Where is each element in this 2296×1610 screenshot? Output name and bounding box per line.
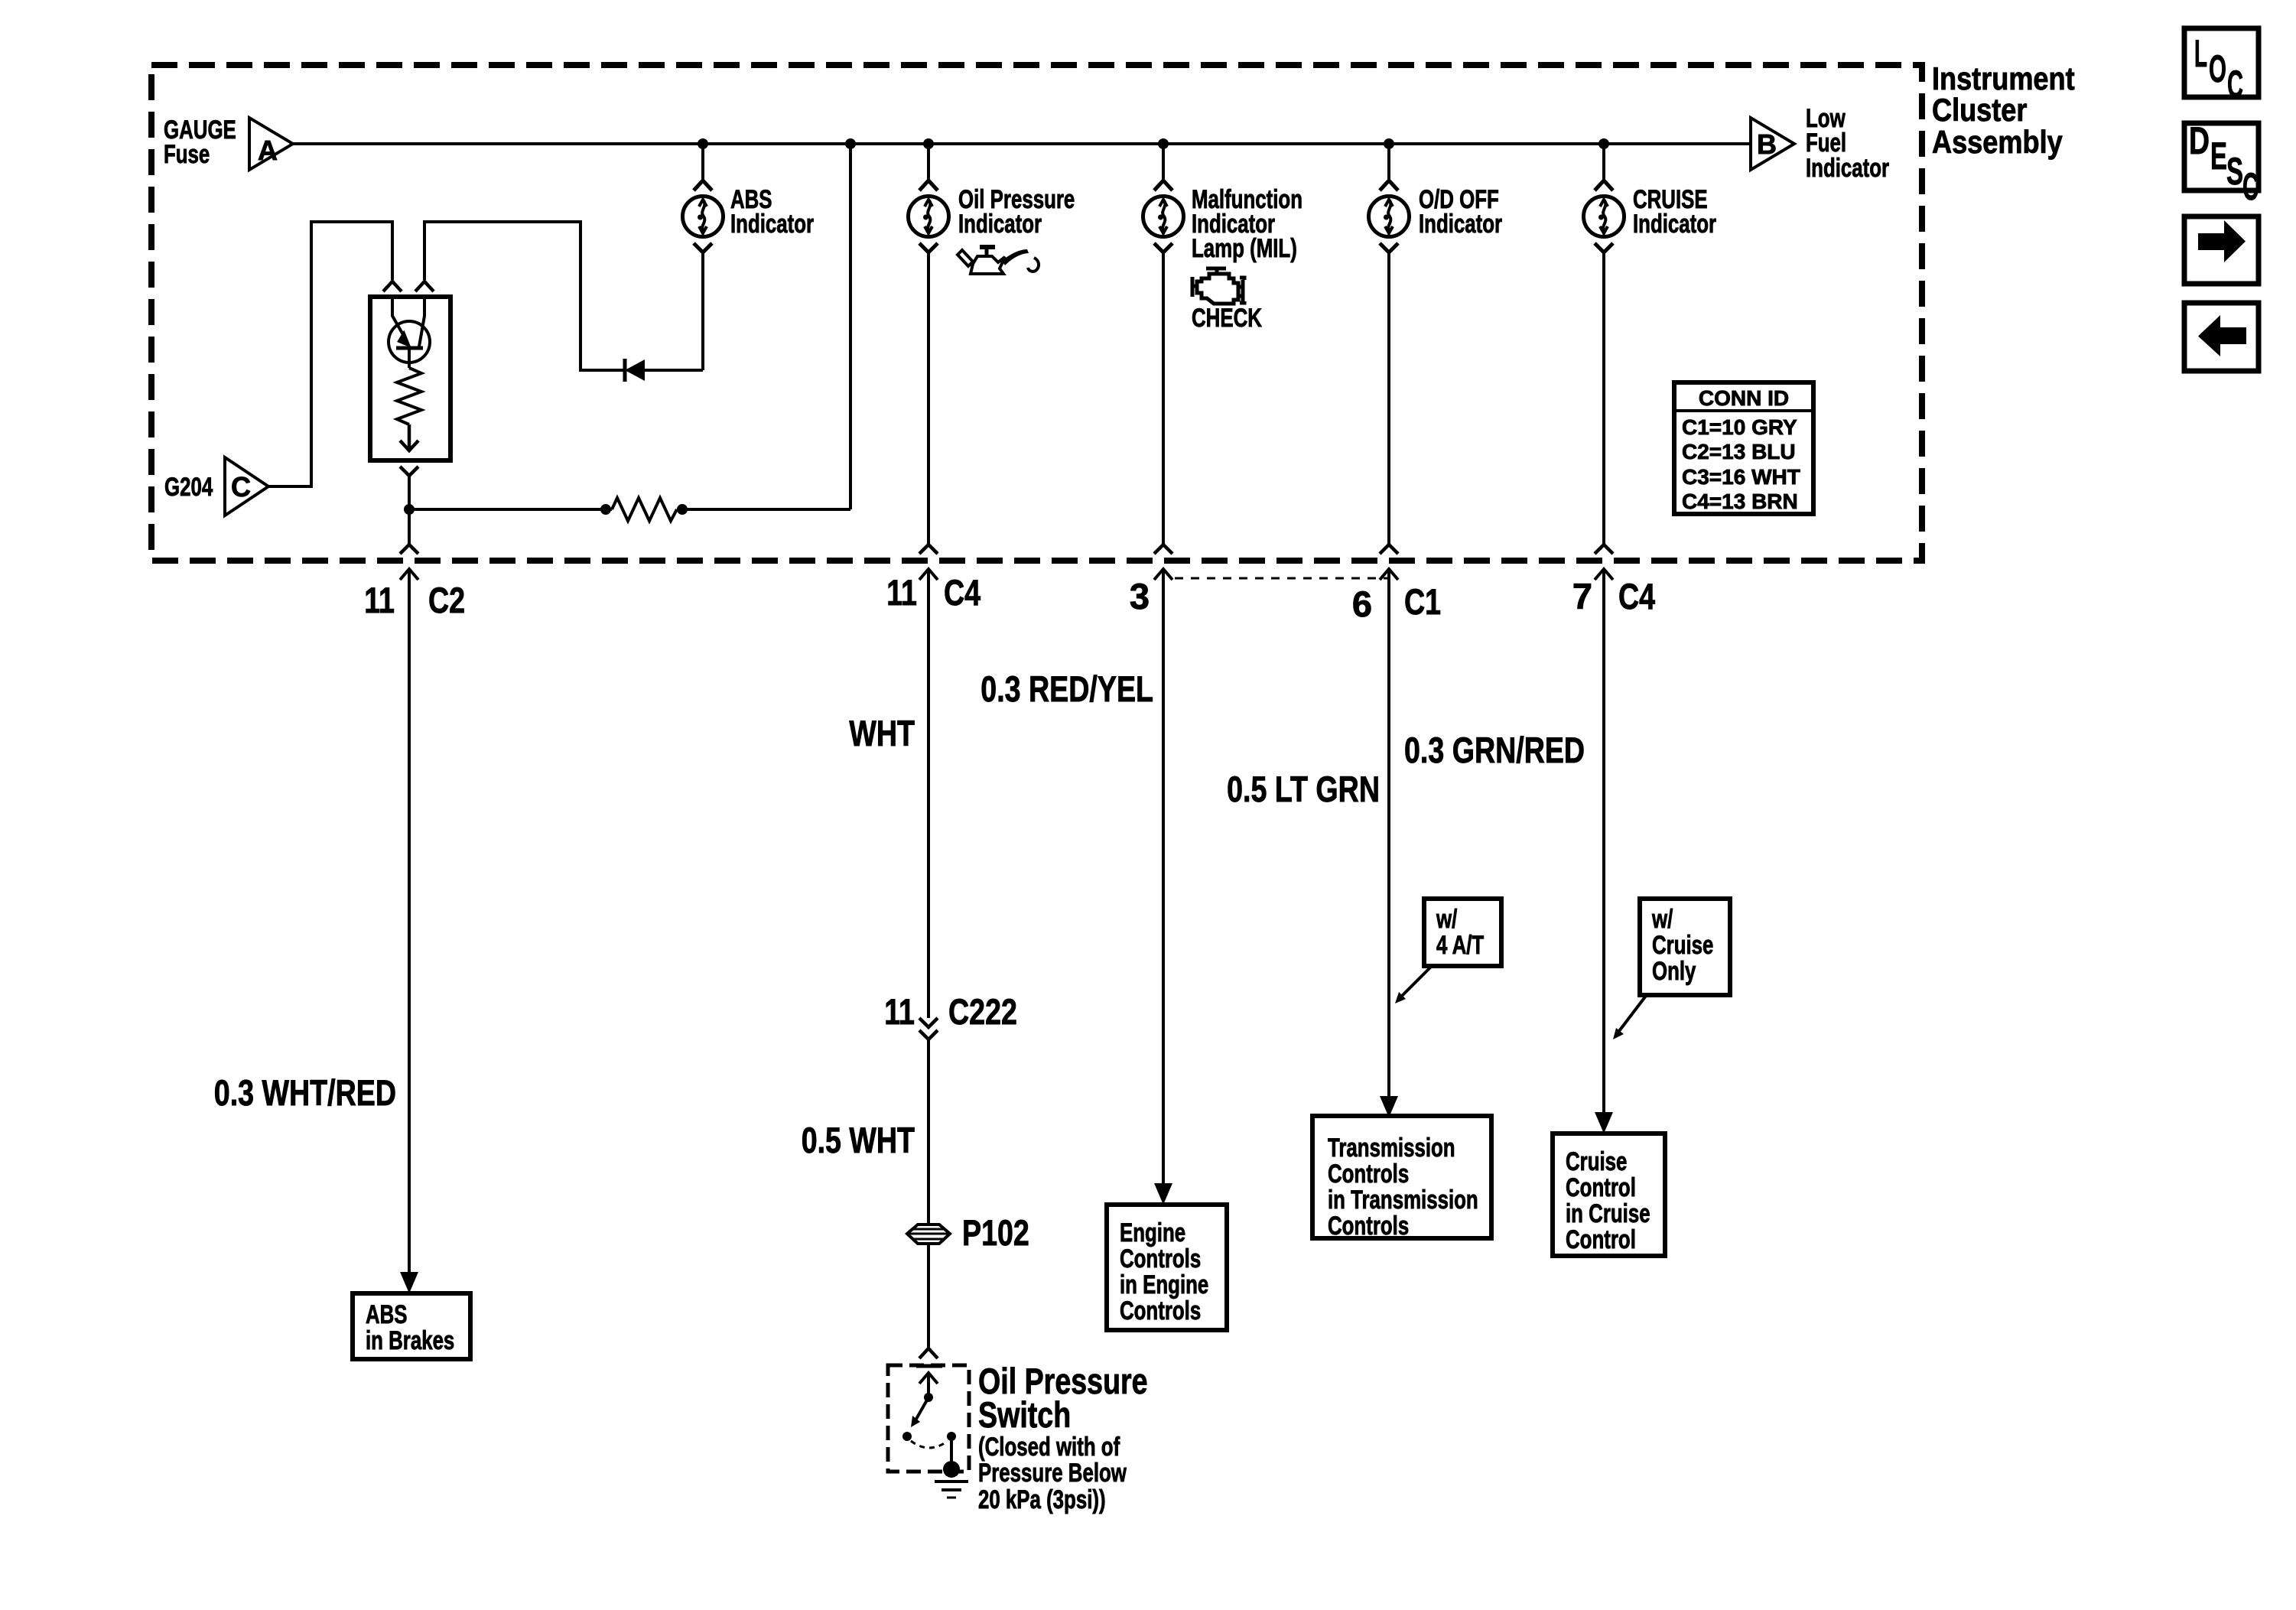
connector chevron: MIL column at box edge (1154, 545, 1172, 554)
svg-text:in Transmission: in Transmission (1328, 1186, 1478, 1215)
svg-text:0.3 WHT/RED: 0.3 WHT/RED (214, 1072, 396, 1113)
svg-text:Cruise: Cruise (1652, 931, 1713, 960)
wire: oil pressure lead below box (919, 569, 938, 1018)
switch terminal bar (916, 1364, 942, 1368)
svg-text:D: D (2189, 119, 2210, 162)
lamp: MIL bulb (1143, 181, 1184, 252)
lamp: oil pressure indicator bulb (909, 181, 949, 252)
svg-text:WHT: WHT (849, 713, 915, 753)
node: bus junction at MIL (1158, 138, 1169, 149)
label: Instrument Cluster Assembly (1932, 60, 2075, 160)
svg-text:3: 3 (1130, 576, 1150, 616)
label Oil Pressure Indicator (958, 185, 1075, 239)
lamp: O/D OFF indicator bulb (1369, 181, 1410, 252)
wire: C terminal to module left input (268, 222, 392, 486)
wire: bus to O/D lamp (1387, 144, 1390, 181)
connector chevron: ABS output at box edge (400, 545, 418, 554)
switch arm (open, arrow down-left) (915, 1397, 928, 1420)
wire: P102 to oil pressure switch (927, 1244, 930, 1348)
svg-text:A: A (258, 135, 278, 166)
button next (right arrow) (2184, 216, 2259, 284)
node: bus junction at O/D OFF indicator (1384, 138, 1394, 149)
svg-text:S: S (2226, 150, 2243, 193)
svg-text:11: 11 (884, 991, 915, 1032)
node: bus junction at cruise indicator (1598, 138, 1609, 149)
svg-text:6: 6 (1352, 584, 1372, 624)
arrow: module output current direction (400, 424, 418, 450)
svg-text:11: 11 (886, 572, 917, 613)
svg-text:Only: Only (1652, 957, 1696, 986)
svg-text:C4: C4 (1618, 576, 1655, 616)
dashed pair link 3 to 6 (1175, 577, 1389, 580)
wire: main feed bus from fuse A to B (293, 142, 1751, 145)
arrow: w/ 4 A/T callout (1395, 966, 1432, 1003)
svg-text:0.5 WHT: 0.5 WHT (802, 1120, 915, 1160)
svg-text:Controls: Controls (1328, 1212, 1409, 1241)
wire: feedback to resistor (409, 508, 612, 511)
node: switch contact left (902, 1432, 912, 1441)
inline connector C222 chevrons (919, 1018, 938, 1039)
connector chevron: module right input (415, 281, 434, 291)
label Malfunction Indicator Lamp (MIL) (1192, 185, 1302, 263)
wire: module right input up over to diode branch (424, 222, 625, 370)
svg-text:B: B (1757, 128, 1777, 160)
arrowhead into transmission controls (1380, 1096, 1398, 1117)
label Oil Pressure Switch (978, 1361, 1148, 1514)
node: junction module output / feedback (404, 504, 415, 515)
box: Engine Controls in Engine Controls (1107, 1205, 1227, 1330)
connector chevron: oil column at box edge (919, 545, 938, 554)
svg-text:Transmission: Transmission (1328, 1134, 1455, 1163)
svg-text:Controls: Controls (1120, 1296, 1201, 1325)
svg-text:Fuse: Fuse (164, 140, 210, 169)
svg-text:in Cruise: in Cruise (1566, 1199, 1650, 1228)
svg-text:Control: Control (1566, 1225, 1636, 1254)
ground G at switch (935, 1461, 968, 1498)
label CRUISE Indicator (1633, 185, 1716, 239)
svg-text:w/: w/ (1651, 905, 1673, 934)
svg-text:Instrument: Instrument (1932, 60, 2075, 96)
wire: O/D lamp to connector exit (1387, 252, 1390, 545)
svg-text:(Closed with of: (Closed with of (978, 1433, 1120, 1462)
label ABS Indicator (730, 185, 814, 239)
arrowhead into engine controls (1154, 1183, 1172, 1205)
connector chevron: O/D column at box edge (1380, 545, 1398, 554)
svg-text:CHECK: CHECK (1192, 304, 1262, 333)
node: feedback resistor left (600, 504, 611, 515)
arrow: w/ Cruise Only callout (1613, 996, 1646, 1039)
svg-text:ABS: ABS (366, 1300, 408, 1329)
svg-text:Cluster: Cluster (1932, 92, 2027, 128)
wire: cruise lead below box (1595, 569, 1613, 1116)
wire: O/D OFF lead below box (1380, 569, 1398, 1100)
arrowhead into ABS in Brakes (400, 1272, 418, 1293)
switch: arrow to terminal (919, 1373, 938, 1397)
diode CR1 (points left) (625, 359, 703, 382)
transistor Q1 in module (389, 298, 430, 368)
label O/D OFF Indicator (1419, 185, 1502, 239)
svg-text:11: 11 (364, 580, 395, 620)
svg-text:C: C (231, 471, 251, 503)
box: ABS in Brakes (353, 1293, 470, 1359)
wire: ABS lamp down to diode line (701, 252, 704, 370)
svg-text:Lamp (MIL): Lamp (MIL) (1192, 234, 1297, 263)
svg-text:0.3 GRN/RED: 0.3 GRN/RED (1404, 730, 1585, 770)
wire: bus drop to feedback resistor (849, 144, 852, 509)
svg-text:G204: G204 (164, 473, 213, 502)
svg-text:Indicator: Indicator (1633, 210, 1716, 239)
svg-text:0.3 RED/YEL: 0.3 RED/YEL (981, 668, 1153, 709)
wire: C222 to P102 (927, 1039, 930, 1225)
svg-text:C: C (2227, 63, 2243, 106)
box: w/ 4 A/T (1424, 899, 1501, 966)
label Low Fuel Indicator (1806, 104, 1889, 183)
terminal A triangle (GAUGE Fuse) (249, 118, 293, 170)
svg-text:P102: P102 (962, 1212, 1029, 1253)
svg-text:Indicator: Indicator (1419, 210, 1502, 239)
arrowhead into cruise control (1595, 1112, 1613, 1134)
wire: bus to oil lamp (927, 144, 930, 181)
svg-text:C4: C4 (944, 572, 981, 613)
button LOC (2184, 28, 2259, 106)
antilock indicator driver module box (370, 297, 450, 460)
button DESC (2184, 119, 2259, 208)
svg-text:20 kPa (3psi)): 20 kPa (3psi)) (978, 1485, 1106, 1514)
svg-text:C1: C1 (1404, 581, 1441, 622)
node: bus junction at ABS indicator (698, 138, 708, 149)
wire: resistor to bus drop (677, 508, 850, 511)
svg-text:O: O (2209, 47, 2226, 90)
wire: bus to ABS lamp (701, 144, 704, 181)
CONN ID table (1674, 382, 1813, 514)
oil pressure switch dashed box (888, 1365, 969, 1472)
wire: bus to MIL lamp (1162, 144, 1165, 181)
svg-text:C2=13 BLU: C2=13 BLU (1682, 440, 1796, 463)
lamp: ABS indicator bulb (683, 181, 724, 252)
switch travel dashed arc (911, 1441, 948, 1448)
button back (left arrow) (2184, 303, 2259, 371)
svg-text:in Brakes: in Brakes (366, 1326, 454, 1355)
instrument cluster assembly dashed border box (151, 65, 1922, 561)
icon: check engine (MIL) (1192, 268, 1244, 304)
svg-text:CONN ID: CONN ID (1699, 386, 1789, 410)
svg-text:Indicator: Indicator (1806, 154, 1889, 183)
wire: ABS C2 lead below box (400, 569, 418, 1275)
wire: module output to C2 exit (408, 476, 411, 545)
svg-text:C222: C222 (948, 991, 1017, 1032)
wire: oil lamp to connector C4 exit (927, 252, 930, 545)
svg-text:Controls: Controls (1120, 1244, 1201, 1273)
terminal C triangle (G204 ground) (225, 457, 268, 516)
svg-text:in Engine: in Engine (1120, 1270, 1208, 1299)
svg-text:C1=10 GRY: C1=10 GRY (1682, 415, 1797, 439)
connector chevron: cruise column at box edge (1595, 545, 1613, 554)
connector chevron above switch (919, 1348, 938, 1358)
svg-text:C3=16 WHT: C3=16 WHT (1682, 465, 1800, 489)
node: switch pivot (924, 1393, 933, 1402)
svg-text:7: 7 (1572, 576, 1592, 616)
box: Cruise Control in Cruise Control (1553, 1134, 1665, 1256)
wire: MIL lamp to connector exit (1162, 252, 1165, 545)
svg-text:C2: C2 (428, 580, 465, 620)
svg-text:Controls: Controls (1328, 1160, 1409, 1189)
svg-text:Assembly: Assembly (1932, 124, 2063, 160)
wire: bus to cruise lamp (1602, 144, 1605, 181)
node: switch contact right (947, 1432, 956, 1441)
svg-text:w/: w/ (1436, 905, 1457, 934)
wire: contact to ground (950, 1436, 953, 1462)
box: Transmission Controls in Transmission Controls (1312, 1116, 1491, 1241)
grommet P102 (907, 1225, 950, 1244)
connector chevron: module left input (383, 281, 402, 291)
svg-text:Cruise: Cruise (1566, 1147, 1627, 1176)
svg-text:Engine: Engine (1120, 1218, 1185, 1247)
connector chevron: module output (400, 467, 418, 476)
node: feedback resistor right (677, 504, 688, 515)
svg-text:Indicator: Indicator (958, 210, 1042, 239)
resistor R2 feedback (612, 498, 677, 521)
wire: cruise lamp to connector exit (1602, 252, 1605, 545)
wire: MIL lead below box (1154, 569, 1172, 1187)
svg-text:Control: Control (1566, 1173, 1636, 1202)
svg-text:C: C (2242, 165, 2259, 208)
svg-text:L: L (2194, 32, 2207, 75)
svg-text:C4=13 BRN: C4=13 BRN (1682, 490, 1798, 513)
icon: oil can (958, 247, 1039, 274)
terminal B triangle (Low Fuel) (1751, 118, 1794, 170)
lamp: CRUISE indicator bulb (1584, 181, 1624, 252)
box: w/ Cruise Only (1640, 899, 1730, 995)
label GAUGE Fuse (164, 115, 236, 169)
svg-text:E: E (2210, 135, 2227, 177)
resistor R1 in module (397, 368, 421, 424)
svg-text:4 A/T: 4 A/T (1436, 931, 1484, 960)
svg-text:Pressure Below: Pressure Below (978, 1459, 1127, 1488)
svg-text:Switch: Switch (978, 1394, 1071, 1435)
node: bus junction at feedback drop (845, 138, 856, 149)
svg-text:0.5 LT GRN: 0.5 LT GRN (1227, 769, 1380, 809)
svg-text:Indicator: Indicator (730, 210, 814, 239)
node: bus junction at oil pressure indicator (923, 138, 934, 149)
